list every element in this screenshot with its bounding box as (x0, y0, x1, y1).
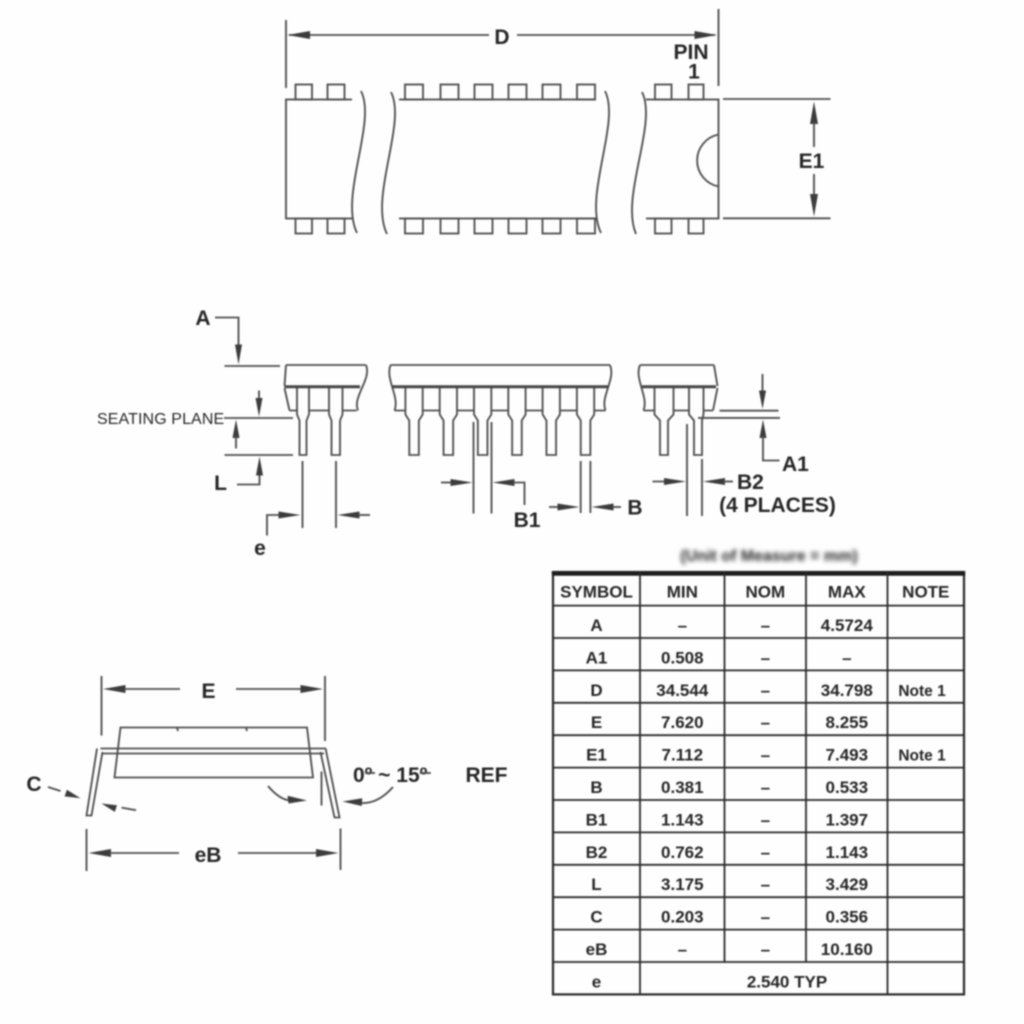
svg-text:–: – (761, 648, 770, 667)
svg-text:–: – (678, 940, 687, 959)
top view: package body outline (286, 100, 719, 219)
end view: right lead (321, 749, 340, 818)
svg-text:1.143: 1.143 (826, 843, 869, 862)
angle arc arrow left of right lead (268, 786, 307, 804)
dimension E: dimension line with outward arrows (103, 685, 323, 693)
svg-text:L: L (214, 472, 227, 495)
svg-text:–: – (761, 713, 770, 732)
svg-text:4.5724: 4.5724 (821, 616, 874, 635)
svg-text:–: – (761, 875, 770, 894)
table: header row (560, 582, 949, 601)
svg-text:B2: B2 (586, 843, 608, 862)
dimension e: right side left-pointing arrow (338, 512, 371, 519)
dimension A: label and leader with down arrow (195, 307, 242, 365)
svg-text:D: D (494, 26, 509, 49)
dimension eB: right extension line (340, 829, 342, 871)
svg-text:Note 1: Note 1 (898, 748, 946, 765)
svg-text:E: E (591, 713, 602, 732)
svg-text:34.544: 34.544 (656, 681, 709, 700)
svg-text:B: B (627, 497, 642, 520)
svg-text:MAX: MAX (828, 582, 866, 601)
svg-text:7.620: 7.620 (661, 713, 704, 732)
dimension D: dimension line with outward arrowheads (288, 31, 718, 39)
svg-text:D: D (590, 681, 602, 700)
dimension L: label and leader with up arrow (214, 457, 263, 496)
label PIN 1 (673, 41, 708, 84)
top view: left break (two S-curves with white gap) (352, 91, 399, 236)
top view: right break (two S-curves with white gap) (596, 91, 646, 236)
svg-text:NOTE: NOTE (902, 582, 949, 601)
table: row eB (586, 940, 873, 959)
dimension E1: top extension line (723, 98, 831, 100)
dimension C: upper-left arrow (48, 787, 81, 798)
svg-text:0.762: 0.762 (661, 843, 704, 862)
svg-text:NOM: NOM (745, 582, 785, 601)
table: row E (591, 713, 868, 732)
dimension B: arrows (549, 504, 621, 511)
table: row A1 (586, 648, 852, 667)
svg-text:1: 1 (688, 61, 700, 84)
side view middle body segment: outline (389, 365, 611, 411)
svg-text:0.381: 0.381 (661, 778, 704, 797)
svg-text:10.160: 10.160 (821, 940, 873, 959)
side view left body segment: outline (285, 365, 368, 411)
svg-text:B: B (590, 778, 602, 797)
side view middle segment: pin 4 (440, 387, 457, 455)
table: outer frame (552, 572, 965, 994)
svg-text:–: – (761, 940, 770, 959)
svg-text:REF: REF (466, 764, 508, 787)
svg-text:(4 PLACES): (4 PLACES) (719, 494, 836, 517)
dimension A1: package bottom reference line (720, 410, 779, 412)
table: horizontal row lines (553, 606, 964, 962)
seating plane down arrow (256, 391, 263, 417)
dimension A: top reference line (225, 365, 281, 367)
svg-text:MIN: MIN (667, 582, 698, 601)
table: row B1 (586, 810, 868, 829)
svg-text:C: C (590, 908, 602, 927)
dimension e: label with elbow and right arrow (254, 512, 300, 561)
table: row A (590, 616, 873, 635)
svg-text:7.112: 7.112 (661, 746, 703, 765)
dimension eB: dimension line with outward arrows (89, 849, 339, 857)
svg-text:0.533: 0.533 (826, 778, 869, 797)
dimension E: right extension line (324, 676, 326, 741)
svg-text:–: – (761, 746, 770, 765)
side view middle segment: pin 8 (577, 387, 594, 455)
svg-text:0º ~ 15º: 0º ~ 15º (353, 764, 428, 787)
svg-text:E: E (201, 680, 215, 703)
label 0 to 15 degrees REF (353, 764, 508, 787)
svg-text:eB: eB (586, 940, 608, 959)
svg-text:–: – (761, 616, 770, 635)
svg-text:0.356: 0.356 (826, 908, 869, 927)
side view middle segment: mold parting dark line (392, 385, 608, 388)
side view left segment: pin 2 (329, 387, 343, 455)
dimension B: extension lines (581, 461, 591, 513)
svg-text:Note 1: Note 1 (898, 683, 946, 700)
side view left segment: pin 1 (corner lead) (297, 387, 309, 455)
dimension D: left extension line (285, 20, 287, 88)
svg-text:B1: B1 (586, 810, 608, 829)
dimension D: right extension line (718, 9, 720, 86)
side view middle segment: pin 5 (474, 387, 491, 455)
svg-text:–: – (761, 681, 770, 700)
side view left segment: mold parting dark line (285, 385, 361, 388)
svg-text:SYMBOL: SYMBOL (560, 582, 633, 601)
end view: package body outline (115, 728, 314, 778)
table: row E1 (586, 746, 946, 765)
table: vertical column lines (640, 572, 888, 994)
svg-text:0.508: 0.508 (661, 648, 704, 667)
dimension E1: vertical dimension line with arrowheads (810, 102, 818, 217)
svg-text:7.493: 7.493 (826, 746, 869, 765)
svg-text:1.397: 1.397 (826, 810, 869, 829)
top view: top row pins (296, 85, 704, 100)
table: row B (590, 778, 868, 797)
side view right segment: mold parting dark line (642, 385, 716, 388)
seating plane up arrow (233, 420, 240, 449)
side view right segment: pin 10 (corner lead) (689, 387, 704, 455)
dimension B1: extension lines (474, 422, 492, 514)
dimension A1: seating plane reference line (698, 417, 780, 419)
svg-text:B1: B1 (514, 509, 541, 532)
svg-text:E1: E1 (586, 746, 607, 765)
svg-text:–: – (761, 843, 770, 862)
dimension E1: bottom extension line (723, 217, 831, 219)
svg-text:eB: eB (195, 844, 222, 867)
side view middle segment: pin 6 (508, 387, 525, 455)
end view: parting lines across body and lead shoulders (101, 749, 327, 754)
svg-text:2.540 TYP: 2.540 TYP (747, 972, 827, 991)
svg-text:–: – (761, 810, 770, 829)
dimension E: left extension line (101, 676, 103, 736)
dimension C: lower-right arrow (102, 804, 137, 812)
svg-text:0.203: 0.203 (661, 908, 704, 927)
end view: vertical angle reference line (321, 772, 323, 806)
side view right body segment: outline (639, 365, 718, 411)
table: row L (591, 875, 868, 894)
table: row B2 (586, 843, 868, 862)
svg-text:E1: E1 (799, 150, 825, 173)
svg-text:–: – (678, 616, 687, 635)
top view: pin 1 index notch (half circle on right end) (697, 135, 718, 187)
svg-text:e: e (592, 972, 601, 991)
svg-text:34.798: 34.798 (821, 681, 873, 700)
dimension B1: arrows and elbow (441, 479, 525, 505)
top view: bottom row pins (296, 219, 704, 234)
side view middle segment: pin 7 (543, 387, 560, 455)
svg-text:3.429: 3.429 (826, 875, 869, 894)
svg-text:–: – (761, 778, 770, 797)
svg-text:A1: A1 (586, 648, 608, 667)
end view: left lead (87, 749, 103, 816)
svg-text:1.143: 1.143 (661, 810, 704, 829)
svg-text:A1: A1 (782, 453, 809, 476)
svg-text:L: L (591, 875, 601, 894)
side view middle segment: pin 3 (405, 387, 422, 455)
dimension A1: up arrow with elbow leader (760, 420, 780, 461)
svg-text:e: e (254, 537, 266, 560)
dimension B2: extension lines (687, 424, 702, 516)
dimension B2: arrows (653, 478, 734, 485)
svg-text:3.175: 3.175 (661, 875, 704, 894)
table: row C (590, 908, 868, 927)
svg-text:(Unit of Measure = mm): (Unit of Measure = mm) (680, 548, 857, 565)
svg-text:–: – (842, 648, 851, 667)
svg-text:B2: B2 (737, 471, 764, 494)
lead tip reference line (225, 454, 294, 456)
angle arc arrow right of right lead (343, 787, 394, 806)
dimension A1: down arrow (759, 374, 766, 409)
svg-text:A: A (590, 616, 602, 635)
dimension e: extension lines from pin centers (303, 461, 337, 528)
seating plane line (224, 417, 293, 419)
table: row D (590, 681, 946, 700)
side view right segment: pin 9 (655, 387, 674, 455)
table: row e (merged value cell) (592, 972, 827, 991)
svg-text:SEATING PLANE: SEATING PLANE (97, 411, 224, 428)
svg-text:C: C (26, 773, 41, 796)
svg-text:A: A (195, 307, 210, 330)
dimension eB: left extension line (86, 829, 88, 871)
svg-text:–: – (761, 908, 770, 927)
svg-text:8.255: 8.255 (826, 713, 869, 732)
